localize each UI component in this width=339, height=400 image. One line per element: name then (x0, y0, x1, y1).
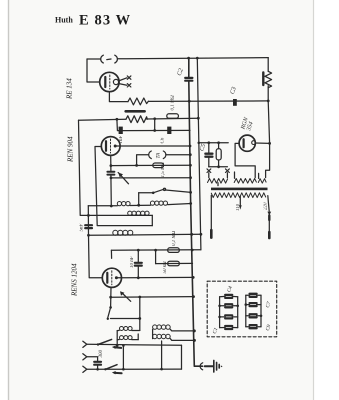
node dot anode/line166 (110, 164, 113, 167)
resistor box 0,1 MOhm (167, 114, 179, 118)
RENS 1204 cathode dot (115, 276, 118, 279)
top-right corner wire down (267, 58, 269, 72)
wire line y166 to TA corner (111, 164, 190, 166)
antenna coil pair right: row 1 (153, 325, 157, 329)
RE 134 plate bar (104, 77, 106, 87)
ground lead thick (205, 365, 214, 367)
svg-text:220: 220 (264, 202, 269, 210)
coil line A-B y205 (88, 204, 191, 206)
wire cap bottom to t3 line (97, 365, 99, 370)
right group cap 4 (250, 325, 257, 328)
node dot 5nF top (87, 214, 90, 217)
transformer winding 2 (HV) (234, 179, 256, 184)
wire grid-leak line (79, 118, 199, 120)
wire REN904 grid-left lead down (95, 147, 152, 226)
transformer winding 3 (258, 179, 266, 183)
switch blade (154, 189, 165, 193)
left group cap 3 (225, 315, 232, 318)
wire coil C right corner down (151, 215, 153, 225)
antenna capacitor 300 (94, 362, 101, 365)
node dot coilD/thin line end (200, 233, 203, 236)
page right edge line (313, 0, 315, 400)
wire long left vertical (grid line) (79, 120, 153, 215)
wire RGN left lead to winding2 (235, 143, 255, 177)
switch blade t3 (104, 368, 106, 370)
node dot row2/bus (193, 339, 196, 342)
capacitor C6 (series) (167, 127, 171, 134)
wire grid line y250 (111, 249, 200, 251)
wire t2 to cap (87, 357, 98, 361)
wire 5nF bottom to RENS grid-left (89, 235, 103, 277)
switch blade t1 (97, 343, 99, 345)
node dot line345/bracket (116, 344, 119, 347)
node dot R2 line mid junction (153, 117, 156, 120)
wire t3 line y369 (87, 368, 182, 370)
node dot coilD/bus (190, 233, 193, 236)
wire down to RGN plate (268, 101, 269, 143)
bar beside top-right resistor (262, 72, 264, 85)
wire line y178 (111, 177, 191, 179)
triode RE 134 envelope (100, 72, 119, 91)
wire connector 250 to 263.5 (155, 250, 157, 264)
wire RE134 cathode down and right (109, 92, 128, 102)
resistor box 0,1 MOhm (grid) (168, 248, 180, 253)
RGN filament loop (252, 141, 256, 145)
antenna terminal 3 (prong) (83, 366, 87, 372)
svg-text:C9: C9 (265, 324, 273, 332)
resistor R anode (zigzag) (128, 98, 148, 105)
node dot 10nF bottom (137, 276, 140, 279)
right group cap 1 (250, 294, 257, 297)
wire TA to right (166, 154, 191, 156)
coil A (3 loops) (117, 202, 121, 206)
svg-text:C4: C4 (225, 285, 234, 293)
wire REN904 anode down (110, 155, 113, 206)
thin vertical line (to mains) (197, 58, 201, 250)
right group cap 3 (250, 314, 257, 317)
triode REN 904 envelope (101, 137, 120, 156)
wire C5 leads (208, 143, 210, 167)
antenna coil pair left: row 2 (117, 339, 119, 341)
dashed enclosure (207, 281, 277, 337)
speaker jack symbol (101, 55, 118, 63)
wiper arrow t3 (115, 372, 121, 374)
ground terminal arc (200, 363, 203, 370)
node dot cap/t3 (96, 368, 99, 371)
primary right lead (268, 196, 269, 212)
winding3 left stub (258, 173, 260, 178)
thick bar above resistor R2 (126, 110, 145, 113)
RE 134 cathode loop (113, 79, 118, 84)
node dot row1/bus (193, 329, 196, 332)
node dot bus/top-rail (187, 57, 190, 60)
wire right corner up (181, 345, 183, 369)
right group bracket right (260, 295, 262, 326)
REN 904 cathode dot (114, 145, 117, 148)
wire coil D line y235 (89, 234, 201, 235)
wire plate lead RE134 (87, 59, 100, 82)
wire resistor to C3 node (267, 86, 269, 101)
wire joint line y167 (209, 166, 228, 168)
left group bracket right (237, 297, 239, 328)
node dot connector top (154, 249, 157, 252)
capacitor 5nF (85, 225, 92, 228)
rectifier RGN 354 envelope (239, 135, 255, 151)
node dot line250/bus (191, 249, 194, 252)
resistor box (PSU bleeder) (216, 149, 221, 160)
node dot C5 top (207, 141, 210, 144)
right group cap 2 (250, 303, 257, 306)
left group cap 2 (225, 304, 232, 307)
antenna terminal 2 (prong) (83, 354, 87, 360)
wire t1 line y345 (87, 344, 182, 345)
wiper arrow t1 (115, 346, 121, 349)
wire vertical to winding3 (266, 143, 270, 177)
right group bracket left (245, 295, 247, 326)
wire line y318.5 (111, 318, 140, 320)
node dot at (268,101) (267, 100, 270, 103)
winding1 center tap (217, 183, 219, 186)
antenna coil pair left: row 1 (117, 329, 119, 331)
antenna coil pair right: row 2 (153, 334, 157, 338)
coil B (4 loops) (150, 201, 154, 205)
transformer core bar (211, 188, 268, 191)
capacitor C2 (series, in bus) (185, 78, 192, 81)
transformer winding 1 (filament) (208, 179, 228, 184)
node dot line296/bus (192, 295, 195, 298)
node dot RGN/vertical (268, 142, 271, 145)
capacitor C5 (205, 154, 212, 157)
resistor top-right (vertical zigzag) (265, 71, 272, 87)
left group cap 1 (225, 295, 232, 298)
node dot R2 line left junction (116, 118, 119, 121)
resistor box 50k (168, 261, 180, 266)
wire REN904 cathode to bus (115, 145, 190, 147)
node dot cathode/bus (189, 145, 192, 148)
svg-text:110: 110 (236, 203, 241, 211)
node dot R2 line/thin line (197, 117, 200, 120)
node dot bottom/x161 (160, 368, 163, 371)
winding2 left stub (234, 172, 236, 178)
ground symbol bars (213, 360, 215, 372)
left group cap 4 (225, 326, 232, 329)
svg-text:300: 300 (99, 350, 104, 358)
x-mark filament left (207, 169, 211, 173)
capacitor 10nF (135, 263, 142, 266)
node dot switch line/bus (189, 191, 192, 194)
node dot thin-line/top-rail (196, 57, 199, 60)
node dot anode line/bus (188, 100, 191, 103)
svg-text:C7: C7 (265, 301, 273, 309)
variable arrow RENS (122, 293, 131, 302)
right pair bracket (152, 329, 154, 338)
node dot coil line/bus (189, 202, 192, 205)
heater lead upper with x (118, 78, 127, 81)
node dot HV/thin (198, 142, 201, 145)
node dot 10nF top (137, 249, 140, 252)
node dot REN anode drop on coil line (110, 205, 113, 208)
svg-text:C5: C5 (198, 143, 207, 152)
RENS 1204 plate bar (106, 273, 108, 283)
tetrode RENS 1204 envelope (102, 268, 121, 287)
capacitor 1nF (series) (119, 127, 123, 134)
pickup jack TA symbol (149, 151, 166, 159)
wire box leads (218, 143, 220, 167)
svg-text:C1: C1 (212, 327, 220, 335)
REN 904 grid dashed (110, 139, 112, 153)
capacitor C3 (series) (233, 99, 237, 106)
node dot RENS cathode/bus (192, 276, 195, 279)
resistor box 1,5 MOhm (153, 163, 164, 168)
variable arrow near REN904 (118, 173, 128, 184)
node dot cap-row mid (153, 129, 156, 132)
node dot RENS bottom/line296 (109, 296, 112, 299)
antenna terminal 1 (prong) (83, 341, 87, 347)
wire vertical x123 (122, 346, 124, 370)
wire 50k line y263.5 (156, 262, 193, 264)
right group dots (245, 303, 248, 306)
REN 904 plate bar (105, 141, 107, 151)
node dot line345/x123 (122, 344, 125, 347)
wire x-marks to winding1 (209, 173, 228, 178)
RE 134 grid (dashed) (109, 75, 111, 89)
primary left lead + mains pin (210, 195, 212, 230)
transformer primary winding (211, 193, 265, 198)
coupling capacitor below REN904 (107, 172, 114, 175)
coil D (4 loops) (113, 230, 118, 235)
node dot coil junction (137, 204, 140, 207)
node dot TA corner (135, 164, 138, 167)
left group dots (218, 305, 221, 308)
wire HV line y143 (199, 142, 228, 144)
wire connector mid (154, 119, 156, 131)
wire coil-line left corner down (5nF branch) (87, 206, 89, 236)
wire 10nF vertical (137, 250, 139, 278)
page left edge line (8, 0, 10, 400)
RGN plate bar (243, 139, 245, 147)
wire anode line to right (148, 100, 268, 103)
wire vertical x140 (296 to coils) (139, 297, 141, 330)
wire line y296 to bus (111, 296, 194, 299)
node dot anode/line178 (110, 177, 113, 180)
node dot box top (217, 141, 220, 144)
coil C (5 loops) (128, 211, 132, 215)
wire right-pair drop to bottom line (161, 341, 163, 369)
left pair bracket (117, 331, 138, 346)
arrow marker 220 (267, 212, 271, 216)
node dot bottom/x123 (122, 368, 125, 371)
heater lead lower with x (118, 84, 127, 86)
wire grid top-cap lead (110, 250, 112, 258)
resistor R2 (zigzag) (126, 116, 147, 123)
wire TA riser (137, 155, 149, 166)
node dot coilD/5nF branch (87, 234, 90, 237)
left group bracket left (219, 297, 221, 328)
top rail wire (87, 58, 268, 59)
node dot joint (217, 165, 220, 168)
wire RENS cathode line to bus (116, 276, 193, 278)
switch line y193 (139, 190, 191, 193)
wire RGN right lead (255, 142, 269, 144)
x-mark filament right (226, 169, 230, 173)
switch blade top (on RENS bottom lead) (109, 306, 112, 309)
node dot x140/line296 (138, 296, 141, 299)
wire RENS bottom lead (110, 287, 112, 307)
RENS 1204 grid dashed (111, 271, 113, 285)
node dot x140/line318 (138, 317, 141, 320)
primary tap 110 (239, 197, 241, 206)
wire drop from R2 line to cap row (117, 119, 190, 130)
wire switch-line corner down (138, 193, 140, 205)
main bus wire (slightly skewed) (189, 58, 203, 366)
